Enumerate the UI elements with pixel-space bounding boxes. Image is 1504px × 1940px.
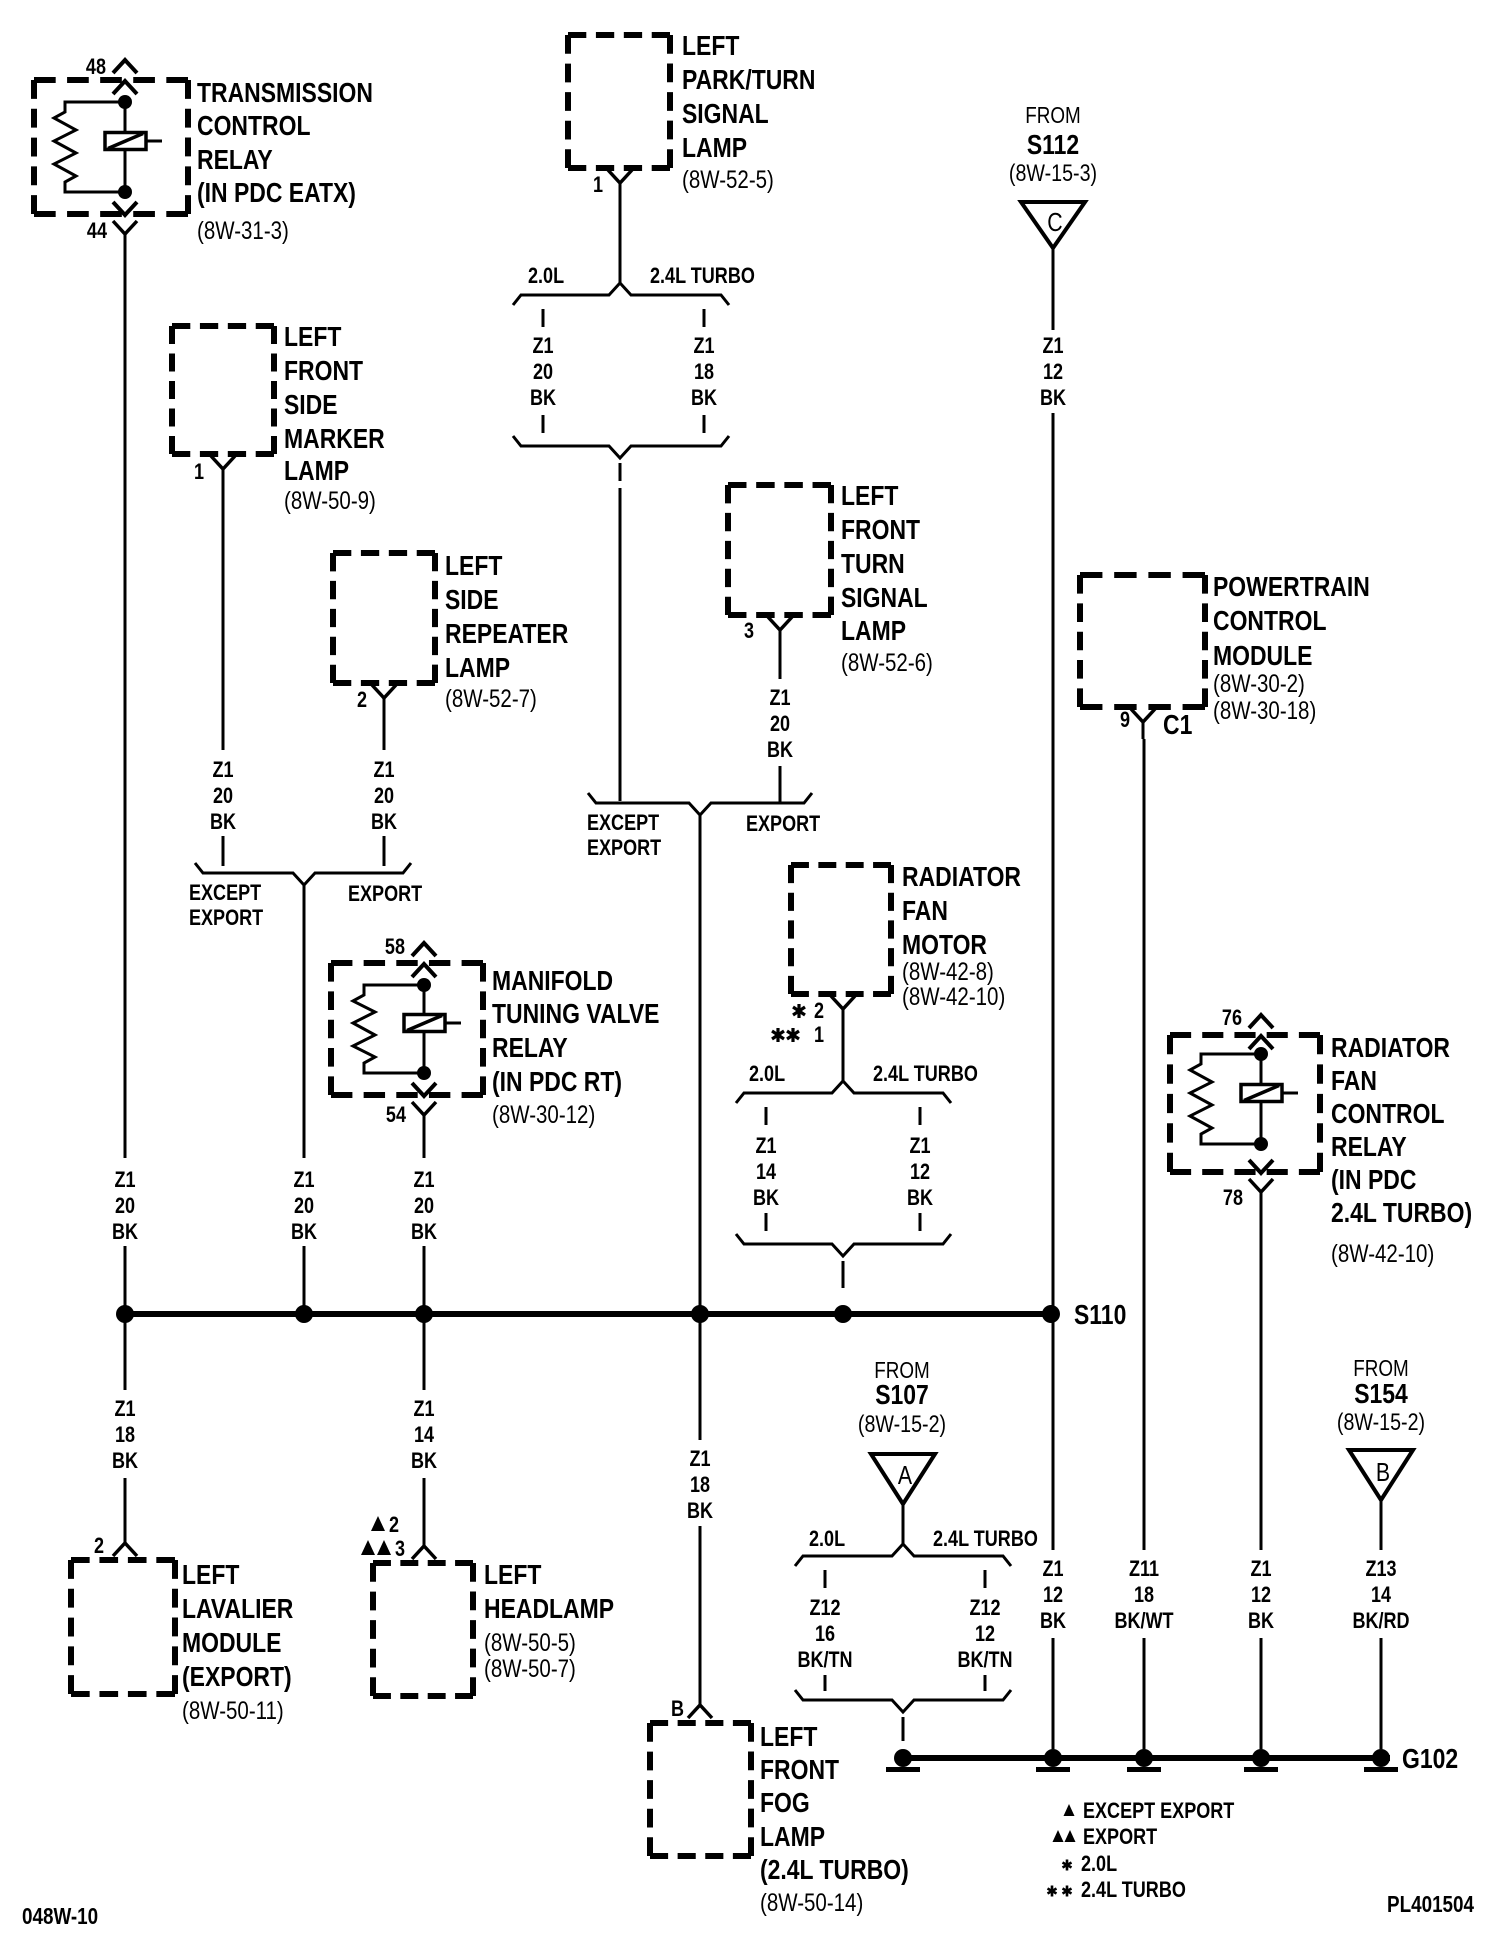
wire pin44 to label Z1 20 BK: [124, 246, 127, 1158]
svg-text:EXCEPT EXPORT: EXCEPT EXPORT: [1083, 1799, 1235, 1823]
svg-text:EXPORT: EXPORT: [746, 812, 821, 836]
wire stub below split1 right: [703, 309, 706, 327]
svg-text:S112: S112: [1027, 130, 1079, 161]
svg-text:LAMP: LAMP: [841, 616, 906, 647]
left front fog lamp box: [650, 1723, 751, 1856]
junction dot S110 x304: [295, 1305, 313, 1323]
svg-text:SIDE: SIDE: [284, 390, 338, 421]
svg-text:Z11: Z11: [1129, 1557, 1159, 1581]
svg-text:20: 20: [115, 1194, 135, 1218]
relay K2 manifold tuning valve relay (IN PDC RT): [331, 963, 483, 1095]
svg-text:FRONT: FRONT: [284, 356, 363, 387]
wire label to S110 (x424): [423, 1246, 426, 1310]
svg-text:BK: BK: [411, 1449, 437, 1473]
svg-text:RELAY: RELAY: [197, 145, 273, 176]
left front turn signal lamp box: [728, 485, 831, 615]
drawing number PL401504: [1387, 1892, 1474, 1917]
svg-text:(8W-15-2): (8W-15-2): [1337, 1408, 1425, 1435]
label 2.0L (S107 split): [809, 1527, 845, 1551]
marker pin 1 2.4L turbo (fan motor): [772, 1023, 824, 1047]
left headlamp references: [484, 1628, 576, 1682]
svg-text:44: 44: [87, 219, 108, 243]
svg-text:LEFT: LEFT: [284, 322, 342, 353]
svg-text:S107: S107: [875, 1380, 929, 1411]
svg-text:CONTROL: CONTROL: [197, 111, 310, 142]
ground junction G102 x1381: [1364, 1749, 1398, 1772]
svg-text:2.0L: 2.0L: [528, 264, 564, 288]
svg-text:12: 12: [975, 1622, 995, 1646]
svg-text:LEFT: LEFT: [484, 1560, 542, 1591]
ground junction G102 x903: [886, 1749, 920, 1772]
svg-text:20: 20: [294, 1194, 314, 1218]
svg-text:2.4L TURBO: 2.4L TURBO: [873, 1062, 978, 1086]
connector pin 1 from left park/turn signal lamp: [608, 170, 632, 200]
svg-text:12: 12: [910, 1160, 930, 1184]
svg-text:BK: BK: [371, 810, 397, 834]
svg-text:CONTROL: CONTROL: [1213, 606, 1326, 637]
left front turn signal lamp reference (8W-52-6): [841, 648, 933, 676]
wire stub above brace (x384): [383, 836, 386, 866]
svg-text:2.0L: 2.0L: [809, 1527, 845, 1551]
svg-text:EXPORT: EXPORT: [1083, 1825, 1158, 1849]
svg-text:FROM: FROM: [1025, 103, 1080, 128]
split brace 2.0L/2.4L TURBO (S107): [795, 1544, 1011, 1566]
label Z1 20 BK (x223): [210, 758, 236, 834]
svg-text:Z1: Z1: [413, 1168, 434, 1192]
svg-text:2: 2: [357, 688, 367, 712]
label EXCEPT EXPORT (brace1): [189, 881, 264, 930]
svg-text:3: 3: [744, 619, 754, 643]
wire stub above brace2 (x780): [779, 766, 782, 803]
label Z1 18 BK (x700): [687, 1447, 713, 1523]
svg-text:76: 76: [1222, 1006, 1242, 1030]
MTV relay internals (resistor + coil): [353, 978, 461, 1080]
connector pin 2 from left side repeater lamp: [372, 685, 396, 715]
wire label to G102 (x1381): [1380, 1638, 1383, 1749]
svg-text:Z1: Z1: [532, 334, 553, 358]
svg-text:(8W-52-6): (8W-52-6): [841, 648, 933, 676]
svg-text:20: 20: [213, 784, 233, 808]
wire park/turn lamp to split brace: [619, 200, 622, 285]
svg-text:Z1: Z1: [1250, 1557, 1271, 1581]
svg-text:14: 14: [1371, 1583, 1392, 1607]
label Z1 20 BK (x125): [112, 1168, 138, 1244]
svg-text:FAN: FAN: [1331, 1066, 1377, 1097]
svg-text:Z1: Z1: [693, 334, 714, 358]
label Z1 12 BK (x1053 lower): [1040, 1557, 1066, 1633]
radiator fan motor box: [791, 865, 891, 994]
svg-text:MODULE: MODULE: [182, 1628, 281, 1659]
svg-text:LAMP: LAMP: [445, 653, 510, 684]
svg-text:(8W-52-5): (8W-52-5): [682, 165, 774, 193]
wire MTV relay to label (x424): [423, 1127, 426, 1158]
wire merge1 to brace2 (x620): [619, 488, 622, 801]
svg-text:BK/WT: BK/WT: [1114, 1609, 1174, 1633]
svg-text:18: 18: [690, 1473, 710, 1497]
marker pin 2 2.0L (fan motor): [793, 999, 824, 1023]
svg-text:TURN: TURN: [841, 549, 905, 580]
label Z13 14 BK/RD (x1381): [1352, 1557, 1409, 1633]
left park/turn signal lamp reference (8W-52-5): [682, 165, 774, 193]
splice symbol B (from S154): [1349, 1450, 1413, 1500]
wire S110 to label Z1 14 BK (x424): [423, 1321, 426, 1390]
left front side marker lamp box: [172, 326, 274, 454]
svg-text:LEFT: LEFT: [182, 1560, 240, 1591]
svg-text:BK: BK: [691, 386, 717, 410]
svg-text:LEFT: LEFT: [760, 1722, 818, 1753]
label EXPORT (brace1): [348, 882, 423, 906]
svg-text:B: B: [671, 1697, 684, 1721]
svg-text:(8W-15-3): (8W-15-3): [1009, 159, 1097, 186]
junction dot S110 x1051: [1042, 1305, 1060, 1323]
pin 76 terminal (fan control relay): [1249, 1015, 1273, 1049]
wire stub above merge1 right: [703, 415, 706, 433]
svg-text:BK: BK: [1248, 1609, 1274, 1633]
wire PCM to label Z11 (x1144): [1143, 739, 1146, 1550]
transmission control relay reference (8W-31-3): [197, 216, 289, 244]
svg-text:Z13: Z13: [1365, 1557, 1396, 1581]
pin 54 label: [386, 1103, 407, 1127]
svg-text:LEFT: LEFT: [841, 481, 899, 512]
wire label to G102 (x1261): [1260, 1638, 1263, 1749]
left side repeater lamp name: [445, 551, 568, 684]
pin 3 label (front turn signal lamp): [744, 619, 754, 643]
wire label to G102 (x1144): [1143, 1638, 1146, 1749]
svg-text:1: 1: [814, 1023, 824, 1047]
svg-text:Z1: Z1: [1042, 334, 1063, 358]
powertrain control module name: [1213, 572, 1370, 672]
label FROM S107 (8W-15-2): [858, 1358, 946, 1437]
svg-text:LAMP: LAMP: [682, 133, 747, 164]
svg-text:EXPORT: EXPORT: [189, 906, 264, 930]
wire brace2 to S110 (x700): [699, 815, 702, 1310]
pin 54 terminal (MTV relay): [412, 1083, 436, 1128]
connector C1 label (PCM): [1163, 710, 1192, 741]
connector into left headlamp: [412, 1532, 436, 1559]
fan control relay internals (resistor + coil): [1190, 1047, 1298, 1151]
label Z1 18 BK (x704): [691, 334, 717, 410]
svg-text:14: 14: [414, 1423, 435, 1447]
svg-text:Z1: Z1: [1042, 1557, 1063, 1581]
svg-text:20: 20: [770, 712, 790, 736]
legend export: [1053, 1825, 1158, 1849]
wire stub below merge1: [619, 463, 622, 481]
merge brace (S107): [795, 1690, 1011, 1712]
pin 48 label: [86, 55, 106, 79]
wire fan motor to split brace: [842, 1026, 845, 1082]
wire fan control relay to label (x1261): [1260, 1204, 1263, 1550]
svg-text:(8W-31-3): (8W-31-3): [197, 216, 289, 244]
marker pin 2 except-export (headlamp): [371, 1513, 399, 1537]
svg-text:16: 16: [815, 1622, 835, 1646]
wire B to label Z13: [1380, 1500, 1383, 1550]
svg-text:(8W-52-7): (8W-52-7): [445, 684, 537, 712]
svg-text:EXCEPT: EXCEPT: [189, 881, 262, 905]
svg-text:HEADLAMP: HEADLAMP: [484, 1594, 614, 1625]
left front turn signal lamp name: [841, 481, 928, 647]
connector from radiator fan motor: [831, 996, 855, 1026]
svg-text:Z1: Z1: [689, 1447, 710, 1471]
powertrain control module box: [1080, 575, 1205, 707]
svg-text:RADIATOR: RADIATOR: [902, 862, 1021, 893]
svg-text:048W-10: 048W-10: [22, 1904, 98, 1929]
label Z12 12 BK/TN (x985): [957, 1596, 1012, 1672]
left front side marker lamp name: [284, 322, 385, 487]
wire stub above merge1 left: [542, 415, 545, 433]
wire stub above fan merge right: [919, 1213, 922, 1231]
radiator fan motor references: [902, 957, 1005, 1010]
svg-text:LAVALIER: LAVALIER: [182, 1594, 293, 1625]
svg-text:2: 2: [94, 1534, 104, 1558]
pin 9 label (PCM): [1120, 708, 1130, 732]
label Z11 18 BK/WT (x1144): [1114, 1557, 1174, 1633]
svg-text:58: 58: [385, 935, 405, 959]
merge brace (park/turn 2.0L/2.4L): [513, 436, 729, 458]
svg-text:(8W-50-11): (8W-50-11): [182, 1696, 284, 1724]
svg-text:RELAY: RELAY: [492, 1033, 568, 1064]
relay K3 radiator fan control relay (IN PDC 2.4L TURBO): [1170, 1035, 1320, 1172]
svg-text:MARKER: MARKER: [284, 424, 385, 455]
pin 44 terminal (transmission control relay): [113, 202, 137, 247]
svg-text:18: 18: [115, 1423, 135, 1447]
svg-text:LAMP: LAMP: [284, 456, 349, 487]
label 2.4L TURBO (S107 split): [933, 1527, 1038, 1551]
left front side marker lamp reference (8W-50-9): [284, 486, 376, 514]
svg-text:BK: BK: [1040, 1609, 1066, 1633]
svg-text:FROM: FROM: [1353, 1356, 1408, 1381]
label Z1 18 BK (x125): [112, 1397, 138, 1473]
powertrain control module references: [1213, 669, 1316, 724]
wire stub below S107 merge: [902, 1717, 905, 1741]
svg-text:2.0L: 2.0L: [749, 1062, 785, 1086]
label S110: [1074, 1300, 1126, 1331]
svg-text:BK: BK: [1040, 386, 1066, 410]
label Z1 20 BK (x543): [530, 334, 556, 410]
sheet number 048W-10: [22, 1904, 98, 1929]
left side repeater lamp reference (8W-52-7): [445, 684, 537, 712]
svg-text:18: 18: [1134, 1583, 1154, 1607]
wire S110 to label Z1 18 BK (x700): [699, 1321, 702, 1440]
wire S110 to label Z1 18 BK (x125): [124, 1321, 127, 1390]
wire label to G102 (x1053): [1052, 1638, 1055, 1749]
svg-text:BK: BK: [687, 1499, 713, 1523]
svg-text:LAMP: LAMP: [760, 1822, 825, 1853]
svg-text:EXPORT: EXPORT: [348, 882, 423, 906]
svg-text:BK: BK: [767, 738, 793, 762]
svg-text:SIDE: SIDE: [445, 585, 499, 616]
svg-text:20: 20: [414, 1194, 434, 1218]
svg-text:MODULE: MODULE: [1213, 641, 1312, 672]
svg-text:MOTOR: MOTOR: [902, 930, 987, 961]
merge brace (fan motor): [736, 1234, 951, 1256]
radiator fan motor name: [902, 862, 1021, 961]
left headlamp name: [484, 1560, 614, 1625]
merge brace except-export/export (marker+repeater): [195, 863, 411, 885]
pin 2 label (side repeater lamp): [357, 688, 367, 712]
junction dot S110 x700: [691, 1305, 709, 1323]
svg-text:FRONT: FRONT: [841, 515, 920, 546]
left lavalier module name: [182, 1560, 293, 1693]
connector pin 1 from left front side marker lamp: [211, 456, 235, 486]
svg-text:(IN PDC EATX): (IN PDC EATX): [197, 178, 356, 209]
label Z1 20 BK (x424): [411, 1168, 437, 1244]
svg-text:A: A: [898, 1461, 912, 1491]
pin 1 label (park/turn lamp): [593, 173, 603, 197]
ground G102 bus wire: [895, 1755, 1390, 1761]
svg-text:2.4L TURBO: 2.4L TURBO: [650, 264, 755, 288]
svg-text:Z12: Z12: [969, 1596, 1000, 1620]
splice symbol C (from S112): [1021, 202, 1085, 248]
svg-text:(8W-42-10): (8W-42-10): [902, 982, 1005, 1010]
svg-text:2.4L TURBO: 2.4L TURBO: [1081, 1878, 1186, 1902]
radiator fan control relay reference (8W-42-10): [1331, 1239, 1434, 1267]
wire front turn signal lamp down (x780): [779, 647, 782, 679]
svg-text:SIGNAL: SIGNAL: [682, 99, 769, 130]
label FROM S112 (8W-15-3): [1009, 103, 1097, 186]
wire stub below fan split right: [919, 1107, 922, 1125]
manifold tuning valve relay reference (8W-30-12): [492, 1100, 595, 1128]
svg-text:G102: G102: [1402, 1744, 1458, 1775]
svg-text:(IN PDC: (IN PDC: [1331, 1165, 1416, 1196]
wire C to label Z1 12 BK: [1052, 248, 1055, 330]
label Z1 20 BK (x304): [291, 1168, 317, 1244]
svg-text:(8W-42-10): (8W-42-10): [1331, 1239, 1434, 1267]
wire label to S110 (x1053): [1052, 413, 1055, 1310]
junction dot S110 x125: [116, 1305, 134, 1323]
junction dot S110 x843: [834, 1305, 852, 1323]
wire stub below split1 left: [542, 309, 545, 327]
pin 44 label: [87, 219, 108, 243]
ground junction G102 x1261: [1244, 1749, 1278, 1772]
svg-text:RADIATOR: RADIATOR: [1331, 1033, 1450, 1064]
svg-text:BK: BK: [753, 1186, 779, 1210]
split brace 2.0L/2.4L TURBO (park/turn): [513, 283, 729, 305]
svg-text:BK/TN: BK/TN: [957, 1648, 1012, 1672]
svg-text:POWERTRAIN: POWERTRAIN: [1213, 572, 1370, 603]
svg-text:2: 2: [814, 999, 824, 1023]
svg-text:(8W-50-9): (8W-50-9): [284, 486, 376, 514]
svg-text:20: 20: [533, 360, 553, 384]
svg-text:(EXPORT): (EXPORT): [182, 1662, 292, 1693]
wire side marker lamp down (x223): [222, 486, 225, 750]
left front fog lamp reference (8W-50-14): [760, 1888, 863, 1916]
svg-text:78: 78: [1223, 1186, 1243, 1210]
svg-text:MANIFOLD: MANIFOLD: [492, 966, 613, 997]
svg-text:2.4L TURBO): 2.4L TURBO): [1331, 1198, 1472, 1229]
left lavalier module box: [71, 1560, 175, 1694]
svg-text:48: 48: [86, 55, 106, 79]
svg-text:(8W-50-5): (8W-50-5): [484, 1628, 576, 1656]
svg-text:LEFT: LEFT: [445, 551, 503, 582]
svg-text:Z1: Z1: [114, 1397, 135, 1421]
svg-text:Z1: Z1: [212, 758, 233, 782]
wire stub above fan merge left: [765, 1213, 768, 1231]
svg-text:Z1: Z1: [413, 1397, 434, 1421]
pin 78 terminal (fan control relay): [1249, 1160, 1273, 1205]
svg-text:S154: S154: [1354, 1379, 1408, 1410]
label EXCEPT EXPORT (brace2): [587, 811, 662, 860]
wire S110 to label (x1053): [1052, 1321, 1055, 1550]
svg-text:(8W-15-2): (8W-15-2): [858, 1410, 946, 1437]
pin 48 terminal (transmission control relay): [113, 60, 137, 94]
svg-text:(8W-30-18): (8W-30-18): [1213, 696, 1316, 724]
svg-text:Z1: Z1: [373, 758, 394, 782]
label Z1 14 BK (x424): [411, 1397, 437, 1473]
label Z1 20 BK (x780): [767, 686, 793, 762]
wire stub above S107 merge left: [824, 1675, 827, 1691]
left headlamp box: [373, 1563, 473, 1696]
pin 76 label: [1222, 1006, 1242, 1030]
svg-text:20: 20: [374, 784, 394, 808]
connector pin 2 into left lavalier module: [113, 1529, 137, 1556]
svg-text:2.4L TURBO: 2.4L TURBO: [933, 1527, 1038, 1551]
left park/turn signal lamp box: [568, 35, 670, 168]
pin B label (fog lamp): [671, 1697, 684, 1721]
svg-text:BK: BK: [291, 1220, 317, 1244]
marker pin 3 export (headlamp): [361, 1537, 405, 1561]
wire side repeater lamp down (x384): [383, 715, 386, 750]
wire label to S110 (x125): [124, 1246, 127, 1310]
manifold tuning valve relay name: [492, 966, 659, 1098]
svg-text:REPEATER: REPEATER: [445, 619, 568, 650]
svg-text:BK: BK: [411, 1220, 437, 1244]
svg-text:(8W-50-7): (8W-50-7): [484, 1654, 576, 1682]
svg-text:BK: BK: [210, 810, 236, 834]
connector pin 9 from PCM: [1131, 709, 1155, 739]
label G102: [1402, 1744, 1458, 1775]
svg-text:1: 1: [593, 173, 603, 197]
split brace 2.0L/2.4L TURBO (fan motor): [736, 1081, 951, 1103]
label 2.4L TURBO (split1): [650, 264, 755, 288]
svg-text:(8W-50-14): (8W-50-14): [760, 1888, 863, 1916]
label 2.4L TURBO (fan motor split): [873, 1062, 978, 1086]
wire stub below fan split left: [765, 1107, 768, 1125]
ground junction G102 x1053: [1036, 1749, 1070, 1772]
label FROM S154 (8W-15-2): [1337, 1356, 1425, 1435]
wire A to split brace: [902, 1504, 905, 1545]
wire stub above brace (x223): [222, 836, 225, 866]
connector pin B into left front fog lamp: [688, 1691, 712, 1718]
pin 58 terminal (MTV relay): [412, 943, 436, 977]
splice symbol A (from S107): [871, 1454, 935, 1504]
svg-text:SIGNAL: SIGNAL: [841, 583, 928, 614]
transmission control relay internals (resistor + coil): [54, 95, 162, 199]
label Z1 14 BK (x766): [753, 1134, 779, 1210]
svg-text:PL401504: PL401504: [1387, 1892, 1474, 1917]
svg-text:(2.4L TURBO): (2.4L TURBO): [760, 1855, 909, 1886]
wire label to S110 (x304): [303, 1246, 306, 1310]
svg-text:TUNING VALVE: TUNING VALVE: [492, 999, 659, 1030]
svg-text:C1: C1: [1163, 710, 1192, 741]
svg-text:12: 12: [1043, 1583, 1063, 1607]
radiator fan control relay name: [1331, 1033, 1472, 1229]
left side repeater lamp box: [333, 553, 435, 683]
label Z1 20 BK (x384): [371, 758, 397, 834]
connector pin 3 from left front turn signal lamp: [768, 617, 792, 647]
label EXPORT (brace2): [746, 812, 821, 836]
legend 2.4L turbo: [1048, 1878, 1186, 1902]
left park/turn signal lamp name: [682, 31, 815, 164]
wire label to left lavalier module (x125): [124, 1478, 127, 1531]
transmission control relay name: [197, 78, 373, 209]
svg-text:(IN PDC RT): (IN PDC RT): [492, 1067, 622, 1098]
svg-text:BK: BK: [907, 1186, 933, 1210]
wire stub below S107 split right: [984, 1570, 987, 1588]
svg-text:S110: S110: [1074, 1300, 1126, 1331]
svg-text:CONTROL: CONTROL: [1331, 1099, 1444, 1130]
svg-text:54: 54: [386, 1103, 407, 1127]
svg-text:EXCEPT: EXCEPT: [587, 811, 660, 835]
